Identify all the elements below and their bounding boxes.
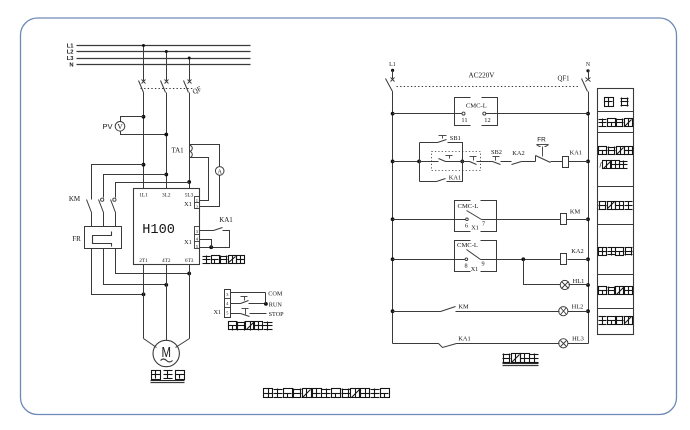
svg-text:KA2: KA2: [571, 248, 583, 255]
svg-text:AC220V: AC220V: [469, 72, 496, 80]
svg-text:X1: X1: [213, 309, 221, 316]
svg-text:QF1: QF1: [557, 76, 569, 83]
svg-text:M: M: [161, 344, 171, 361]
svg-text:COM: COM: [268, 290, 283, 297]
svg-text:HL3: HL3: [572, 336, 584, 343]
svg-text:8: 8: [464, 262, 467, 269]
svg-text:KA1: KA1: [570, 150, 582, 157]
svg-text:KM: KM: [69, 195, 81, 203]
svg-text:A: A: [217, 168, 222, 175]
svg-text:FR: FR: [537, 137, 546, 144]
svg-text:7: 7: [482, 221, 485, 228]
svg-text:KM: KM: [570, 209, 581, 216]
svg-text:3L2: 3L2: [162, 192, 171, 198]
svg-text:STOP: STOP: [269, 311, 285, 318]
svg-text:11: 11: [461, 117, 467, 124]
svg-text:H100: H100: [142, 223, 175, 238]
svg-text:KA1: KA1: [219, 216, 233, 224]
svg-text:X1: X1: [184, 201, 192, 208]
svg-text:KA2: KA2: [512, 150, 524, 157]
svg-text:CMC-L: CMC-L: [458, 203, 479, 210]
svg-text:HL1: HL1: [573, 278, 585, 285]
svg-text:4T2: 4T2: [162, 258, 171, 264]
svg-text:6T3: 6T3: [185, 258, 194, 264]
svg-text:KA1: KA1: [449, 174, 461, 181]
svg-text:SB2: SB2: [491, 149, 502, 156]
svg-text:N: N: [69, 62, 73, 68]
svg-text:KA1: KA1: [458, 336, 470, 343]
svg-text:6: 6: [465, 222, 468, 229]
svg-text:L1: L1: [389, 62, 396, 68]
svg-text:X1: X1: [184, 239, 192, 246]
svg-text:L3: L3: [67, 56, 75, 62]
svg-text:PV: PV: [102, 122, 112, 131]
svg-text:9: 9: [481, 261, 484, 268]
svg-text:1L1: 1L1: [139, 192, 148, 198]
svg-text:5L3: 5L3: [185, 192, 194, 198]
svg-text:12: 12: [484, 117, 490, 124]
svg-text:CMC-L: CMC-L: [457, 242, 478, 249]
svg-text:KM: KM: [458, 303, 469, 310]
svg-text:L2: L2: [67, 50, 74, 56]
svg-text:TA1: TA1: [171, 147, 184, 155]
svg-text:X1: X1: [471, 266, 479, 273]
svg-text:X1: X1: [471, 224, 479, 231]
svg-text:FR: FR: [72, 235, 81, 243]
svg-text:V: V: [117, 122, 123, 131]
svg-text:SB1: SB1: [450, 135, 461, 142]
svg-text:RUN: RUN: [269, 301, 283, 308]
svg-text:2T1: 2T1: [139, 258, 148, 264]
svg-text:HL2: HL2: [572, 303, 584, 310]
svg-text:CMC-L: CMC-L: [466, 103, 487, 110]
